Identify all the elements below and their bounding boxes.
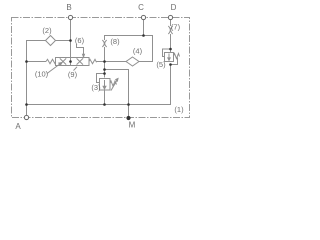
leader for (6) bbox=[77, 44, 84, 55]
port circles bbox=[24, 15, 172, 119]
node relief drain tee bbox=[169, 63, 172, 66]
wire: orifice (7) to relief valve (5) bbox=[170, 34, 172, 53]
wire: junction down to valve (3) bbox=[104, 62, 106, 78]
valve (3) adjust arrow bbox=[111, 79, 118, 91]
node C tee bbox=[142, 34, 145, 37]
node main junction bbox=[103, 60, 106, 63]
svg-text:B: B bbox=[66, 3, 71, 12]
node B-filter junction bbox=[69, 39, 72, 42]
node relief pilot tee bbox=[169, 48, 172, 51]
wire: orifice (8) riser bbox=[104, 47, 106, 62]
svg-text:(1): (1) bbox=[174, 105, 184, 114]
node bus-A tee bbox=[25, 103, 28, 106]
spring left of valve (10) bbox=[46, 59, 56, 63]
wire: bottom bus bbox=[27, 65, 171, 105]
valve (3) arrow bbox=[103, 80, 106, 89]
wire: filter (2) to left drop bbox=[27, 41, 46, 118]
svg-text:(3): (3) bbox=[91, 83, 101, 92]
wire: port B down to valve center bbox=[70, 19, 72, 62]
node valve center junction bbox=[69, 60, 72, 63]
port M filled bbox=[126, 116, 130, 120]
node left branch tee bbox=[25, 60, 28, 63]
svg-text:(10): (10) bbox=[35, 70, 49, 79]
wire: valve left line bbox=[27, 61, 47, 63]
svg-text:(9): (9) bbox=[68, 70, 78, 79]
svg-text:(7): (7) bbox=[171, 23, 181, 32]
port D bbox=[168, 15, 172, 19]
relief valve (5) body bbox=[165, 53, 174, 62]
leader for (10) bbox=[47, 64, 61, 74]
spring right of valve (9) bbox=[89, 59, 97, 63]
valve (9)/(10) body bbox=[56, 58, 90, 66]
enclosure boundary (1) dash-dot border bbox=[12, 18, 190, 118]
valve (3) body bbox=[100, 79, 111, 91]
svg-text:(5): (5) bbox=[156, 60, 166, 69]
svg-text:(8): (8) bbox=[110, 37, 120, 46]
X in left square bbox=[60, 58, 66, 64]
junction dots bbox=[25, 34, 172, 106]
svg-text:(2): (2) bbox=[42, 26, 52, 35]
wire: loop top bbox=[105, 36, 153, 62]
relief valve (5) arrow bbox=[168, 54, 170, 61]
wire: port D down bbox=[170, 19, 172, 26]
svg-text:M: M bbox=[129, 121, 136, 130]
leader for (9) bbox=[74, 67, 78, 71]
relief valve (5) drain hook bbox=[171, 58, 178, 65]
orifice (7) bbox=[168, 26, 172, 34]
wire: valve (3) outlet to bus bbox=[104, 90, 106, 105]
port B bbox=[68, 15, 72, 19]
filter (4) diamond bbox=[126, 57, 139, 66]
svg-text:(4): (4) bbox=[133, 47, 143, 56]
wire: filter (2) branch bbox=[56, 40, 71, 42]
wire: port C down bbox=[143, 19, 145, 36]
port A bbox=[24, 115, 28, 119]
filter (2) diamond bbox=[46, 36, 56, 46]
node bus-M cross bbox=[127, 103, 130, 106]
orifice (8) bbox=[102, 40, 106, 47]
node bus-3 tee bbox=[103, 103, 106, 106]
wire: valve right to junction bbox=[97, 61, 105, 63]
node M branch tee bbox=[103, 68, 106, 71]
valve (3) spring bbox=[110, 81, 117, 86]
valve divider bbox=[70, 58, 72, 66]
port C bbox=[141, 15, 145, 19]
relief valve (5) pilot loop bbox=[163, 49, 171, 57]
node pilot tee bbox=[103, 72, 106, 75]
wire: branch to port M bbox=[105, 70, 129, 119]
svg-text:(6): (6) bbox=[75, 36, 85, 45]
wire: diamond (4) left to junction bbox=[105, 61, 127, 63]
relief valve (5) spring bbox=[174, 54, 180, 59]
svg-text:C: C bbox=[138, 3, 144, 12]
valve (3) pilot loop bbox=[97, 74, 105, 83]
svg-text:D: D bbox=[171, 3, 177, 12]
X in right square bbox=[77, 58, 83, 64]
svg-text:A: A bbox=[15, 122, 21, 131]
